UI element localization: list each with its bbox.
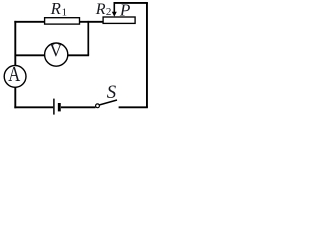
wire left side lower (ammeter to bottom corner) (14, 87, 16, 108)
ammeter A (4, 64, 26, 87)
wire bottom-left (corner to battery) (14, 106, 53, 108)
svg-text:V: V (50, 41, 62, 61)
wire bottom-right (switch contact to corner) (119, 106, 148, 108)
wire voltmeter tap drop (junction to V right branch) (87, 21, 89, 55)
wire top-left horizontal (corner to R1) (14, 21, 45, 23)
svg-text:S: S (107, 82, 117, 103)
svg-text:R: R (95, 1, 106, 18)
rheostat R2 body (103, 17, 135, 23)
svg-text:2: 2 (106, 6, 112, 18)
voltmeter V (45, 41, 68, 67)
wire right side vertical (146, 3, 148, 107)
wire voltmeter right branch (68, 54, 89, 56)
svg-text:R: R (50, 0, 61, 18)
wire battery to switch (61, 106, 96, 108)
resistor R1 (45, 18, 80, 24)
wire left side upper (top corner to ammeter) (14, 21, 16, 66)
battery cell (54, 99, 59, 115)
wire slider to top-right corner (114, 2, 148, 4)
rheostat slider arrow (112, 3, 117, 17)
svg-text:1: 1 (62, 7, 68, 19)
switch S (96, 100, 117, 108)
wire voltmeter left branch (15, 54, 45, 56)
wire R1 to R2 (80, 21, 103, 23)
svg-text:A: A (8, 64, 20, 86)
